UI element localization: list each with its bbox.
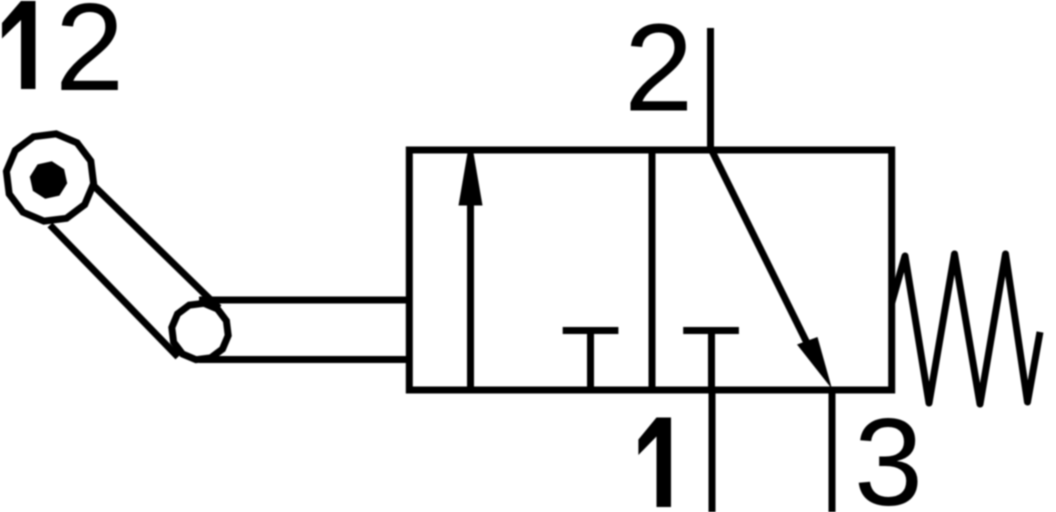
return spring zigzag bbox=[892, 254, 1040, 404]
left square flow arrow shaft bbox=[467, 203, 474, 387]
valve body rectangle bbox=[409, 150, 891, 390]
right square blocked port T: stem bbox=[708, 331, 715, 391]
port 3 pipe line bbox=[829, 390, 836, 512]
left square blocked port T: stem bbox=[587, 331, 594, 391]
lever horizontal top line bbox=[199, 297, 409, 304]
left square blocked port T: crossbar bbox=[563, 327, 619, 334]
label 12 digit 1 (custom helvetica-style path) bbox=[2, 1, 36, 89]
lever horizontal bottom line bbox=[199, 356, 409, 363]
right square diagonal flow line shaft bbox=[713, 152, 808, 343]
lever arm upper diagonal line bbox=[94, 186, 219, 308]
left square flow arrow head bbox=[459, 150, 483, 206]
svg-text:2: 2 bbox=[55, 0, 124, 117]
port label 1 (custom helvetica-style path) bbox=[638, 418, 671, 508]
right square diagonal flow arrow head bbox=[797, 337, 832, 389]
valve body middle divider bbox=[649, 150, 656, 390]
roller wheel (12-gon circle) bbox=[6, 134, 93, 221]
svg-text:3: 3 bbox=[854, 394, 923, 512]
roller axle dot (filled octagon) bbox=[30, 161, 67, 198]
port 1 pipe line bbox=[709, 390, 716, 512]
svg-text:2: 2 bbox=[624, 0, 693, 138]
right square blocked port T: crossbar bbox=[683, 327, 739, 334]
lever pivot circle (12-gon) bbox=[172, 303, 228, 359]
lever arm lower diagonal line bbox=[50, 225, 178, 357]
port 2 pipe line bbox=[707, 28, 714, 150]
